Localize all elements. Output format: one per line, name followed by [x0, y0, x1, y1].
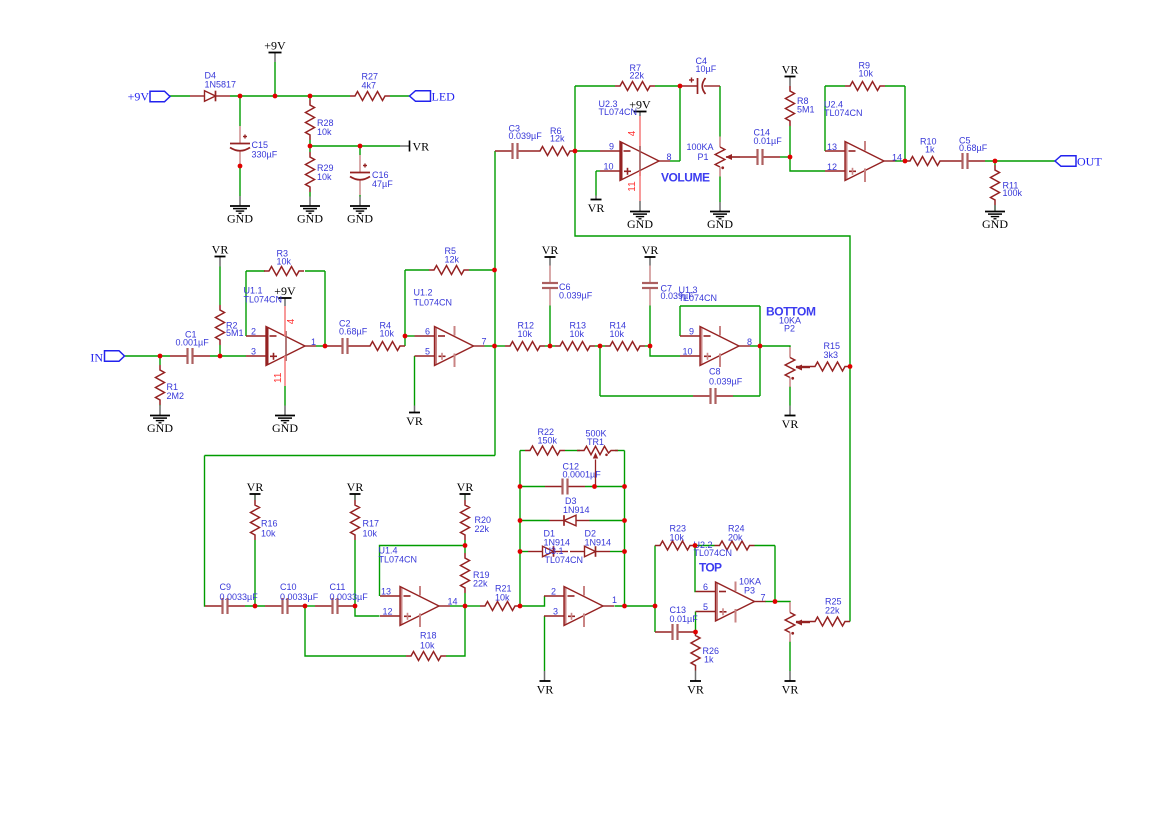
resistor R19 — [461, 553, 470, 593]
svg-text:TOP: TOP — [699, 561, 722, 575]
wire C8 left — [600, 395, 693, 397]
capacitor C16 — [359, 155, 361, 173]
svg-text:5: 5 — [703, 602, 708, 612]
wire R20 top — [464, 494, 466, 500]
wire node O up to R23 — [654, 546, 656, 607]
svg-text:8: 8 — [747, 337, 752, 347]
svg-text:IN: IN — [90, 351, 103, 365]
svg-text:0.68µF: 0.68µF — [339, 327, 368, 337]
svg-text:+9V: +9V — [128, 90, 150, 104]
wire R7 feedback left — [574, 86, 576, 151]
svg-text:2: 2 — [551, 587, 556, 597]
wire U2.4 out to R10 — [895, 160, 905, 162]
node junction 25 at 355,606 — [353, 604, 358, 609]
svg-text:GND: GND — [272, 421, 298, 435]
power flag VR below U1.2 pin5 — [409, 412, 420, 414]
wire R4 to bend — [404, 336, 406, 346]
svg-text:6: 6 — [703, 582, 708, 592]
svg-text:TL074CN: TL074CN — [694, 548, 733, 558]
svg-text:VR: VR — [537, 683, 554, 697]
node junction 12 at 160,356 — [158, 354, 163, 359]
node junction 32 at 695.5,632 — [693, 630, 698, 635]
svg-text:7: 7 — [761, 593, 766, 603]
pin 11 U1.1 — [284, 356, 286, 386]
svg-text:1N5817: 1N5817 — [205, 80, 237, 90]
node junction 29 at 624.5,606 — [622, 604, 627, 609]
power flag +9V U1.1 — [279, 297, 292, 299]
wire R9 right vertical — [904, 86, 906, 161]
wire node E to C2 — [324, 345, 326, 347]
wire R3 top left — [246, 270, 265, 272]
node junction 24 at 305,606 — [303, 604, 308, 609]
svg-text:VR: VR — [588, 201, 605, 215]
svg-text:GND: GND — [297, 212, 323, 226]
wire C14 to node B — [780, 156, 790, 158]
svg-text:10k: 10k — [317, 127, 332, 137]
node junction 3 at 310,96 — [308, 94, 313, 99]
svg-text:10k: 10k — [420, 641, 435, 651]
capacitor C13 — [655, 631, 672, 633]
svg-text:11: 11 — [273, 372, 284, 383]
svg-text:4k7: 4k7 — [362, 81, 377, 91]
wire R27 to LED flag — [390, 95, 410, 97]
wire D4 to node A — [230, 95, 350, 97]
resistor R15 — [810, 362, 850, 371]
op-amp U1.1 — [266, 327, 268, 365]
ground GND under C15 — [230, 205, 250, 207]
resistor R7 — [615, 82, 655, 91]
svg-text:22k: 22k — [473, 579, 488, 589]
svg-text:GND: GND — [707, 217, 733, 231]
svg-text:0.0033µF: 0.0033µF — [330, 592, 369, 602]
wire node A to R28 — [309, 96, 311, 100]
wire node G down — [599, 346, 601, 396]
wire U3.1 out rail — [615, 605, 656, 607]
svg-text:TL074CN: TL074CN — [244, 295, 283, 305]
svg-text:8: 8 — [667, 152, 672, 162]
wire node K to U1.4 pin12 — [355, 606, 380, 616]
wire U2.3 pin10 to VR — [596, 170, 600, 172]
svg-text:100KA: 100KA — [687, 142, 714, 152]
wire VR rail to R29 — [309, 146, 311, 152]
ground GND under U1.1 — [275, 415, 295, 417]
node junction 33 at 775,601.5 — [773, 599, 778, 604]
resistor R14 — [605, 342, 645, 351]
power flag VR above R16 — [250, 493, 261, 495]
VR pin stub C6 — [549, 257, 551, 266]
wire U1.2 out to vertical — [485, 345, 495, 347]
wire R12 left — [495, 345, 506, 347]
capacitor C9 — [205, 605, 222, 607]
svg-text:10k: 10k — [363, 529, 378, 539]
svg-text:10k: 10k — [670, 533, 685, 543]
node junction 8 at 680,86 — [678, 84, 683, 89]
wire R5 right — [469, 269, 495, 271]
wire R15 to right rail — [849, 366, 851, 368]
ground GND under R1 — [150, 415, 170, 417]
svg-text:OUT: OUT — [1077, 155, 1102, 169]
pin 4 U1.1 — [284, 306, 286, 336]
wire R5 left — [405, 269, 429, 271]
svg-text:13: 13 — [827, 142, 837, 152]
wiper wire P3 — [796, 621, 810, 623]
VR pin stub right tick — [400, 145, 410, 147]
svg-text:TL074CN: TL074CN — [379, 555, 418, 565]
svg-text:VR: VR — [782, 683, 799, 697]
VR pin stub R16 — [254, 494, 256, 500]
wire R22 to TR1 — [565, 450, 580, 452]
wire long top link — [575, 151, 850, 367]
svg-text:47µF: 47µF — [372, 179, 393, 189]
svg-text:3: 3 — [251, 347, 256, 357]
svg-text:330µF: 330µF — [252, 150, 278, 160]
op-amp U1.3 — [700, 327, 702, 365]
wire U1.1 pin2 up — [245, 271, 247, 336]
ground GND under R11 — [985, 211, 1005, 213]
node junction 34 at 520,486.5 — [518, 484, 523, 489]
resistor R26 — [691, 631, 700, 671]
wire R2 bottom — [219, 345, 221, 356]
svg-text:C15: C15 — [252, 140, 269, 150]
wire node A to C15 — [239, 96, 241, 126]
wire R23 to R24 — [695, 545, 715, 547]
svg-text:3k3: 3k3 — [824, 350, 839, 360]
capacitor C14 — [740, 156, 757, 158]
ground GND under R29 — [300, 205, 320, 207]
svg-text:U1.2: U1.2 — [414, 288, 433, 298]
power flag VR right of R28 — [409, 141, 411, 152]
wire node O down to C13 — [654, 606, 656, 632]
svg-text:9: 9 — [609, 142, 614, 152]
svg-text:1N914: 1N914 — [585, 538, 612, 548]
svg-text:LED: LED — [432, 90, 456, 104]
capacitor C3 — [495, 150, 512, 152]
svg-text:VR: VR — [413, 140, 430, 154]
svg-text:10k: 10k — [570, 329, 585, 339]
diode D3 — [550, 520, 565, 522]
resistor R16 — [251, 500, 260, 540]
capacitor C12 — [545, 486, 562, 488]
wire ladder top left — [520, 450, 525, 452]
wire C1 to U1.1 pin3 — [210, 355, 246, 357]
svg-text:R16: R16 — [261, 519, 278, 529]
node junction 6 at 360,146 — [358, 144, 363, 149]
svg-text:GND: GND — [227, 212, 253, 226]
wire U1.4 pin13 link — [380, 546, 466, 597]
svg-text:C8: C8 — [709, 367, 721, 377]
svg-text:VR: VR — [782, 62, 799, 76]
svg-text:10k: 10k — [610, 329, 625, 339]
ground pin stub U2.3 pin11 — [639, 201, 641, 212]
wire C13 node to U2.2 pin5 — [695, 612, 697, 633]
diode D4 — [190, 95, 205, 97]
svg-text:GND: GND — [627, 217, 653, 231]
wire node P to P3 — [775, 601, 790, 604]
svg-text:0.0001µF: 0.0001µF — [563, 470, 602, 480]
wire R16 drop — [254, 540, 256, 606]
svg-text:VR: VR — [347, 480, 364, 494]
port IN input flag — [105, 351, 125, 362]
wire C3 left vertical — [494, 151, 496, 456]
VR pin stub U1.2 pin5 — [414, 406, 416, 413]
wire R7 top left — [575, 85, 615, 87]
node junction 17 at 494.5,346 — [492, 344, 497, 349]
svg-text:10k: 10k — [495, 593, 510, 603]
wire node M to R21 — [465, 605, 480, 607]
power flag VR below U2.3 pin10 — [591, 199, 602, 201]
VR pin stub R2 — [219, 257, 221, 267]
wire U2.3 out up — [679, 86, 681, 161]
svg-text:10k: 10k — [261, 529, 276, 539]
wire R21 to node N — [520, 596, 545, 606]
resistor R20 — [461, 500, 470, 540]
wire U1.1 out to node — [316, 345, 325, 347]
power flag VR above R8 — [785, 76, 796, 78]
resistor R13 — [555, 342, 595, 351]
svg-text:11: 11 — [627, 181, 638, 192]
wire U1.2 pin5 stub wire — [414, 356, 416, 406]
svg-text:150k: 150k — [538, 436, 558, 446]
wire C5 to OUT flag — [985, 160, 1055, 162]
wire VR to R2 — [219, 267, 221, 306]
svg-text:12: 12 — [383, 607, 393, 617]
svg-text:5M1: 5M1 — [797, 105, 815, 115]
resistor R24 — [715, 541, 755, 550]
svg-text:TL074CN: TL074CN — [824, 108, 863, 118]
wire node F to U1.2 pin6 — [405, 335, 415, 337]
svg-text:TR1: TR1 — [587, 437, 604, 447]
capacitor C11 — [315, 605, 332, 607]
VR pin stub R17 — [354, 494, 356, 500]
wire node F up to R5 — [404, 270, 406, 336]
svg-text:+9V: +9V — [264, 38, 286, 52]
ground pin stub R1 — [159, 406, 161, 416]
op-amp U1.2 — [435, 327, 437, 365]
resistor R28 — [306, 100, 315, 140]
node junction 20 at 650,346 — [648, 344, 653, 349]
wire C8 loop top — [680, 305, 760, 307]
wire P2 bottom — [789, 386, 791, 406]
svg-text:P2: P2 — [784, 324, 795, 334]
wire C8 loop right vertical — [759, 306, 761, 396]
svg-text:22k: 22k — [630, 71, 645, 81]
pin 4 U2.3 — [639, 116, 641, 146]
svg-text:3: 3 — [553, 607, 558, 617]
trimmer TR1 — [577, 446, 618, 454]
wire P1 bottom to GND — [719, 177, 721, 203]
+9V pin stub U2.3 — [639, 112, 641, 117]
op-amp U2.4 — [845, 142, 847, 180]
wire U1.3 pin10 jog — [650, 346, 680, 356]
wire R19 to node L — [464, 546, 466, 554]
wire R9 top left — [825, 85, 845, 87]
svg-text:P1: P1 — [698, 152, 709, 162]
wire U2.3 out to node — [670, 160, 680, 162]
resistor R22 — [525, 446, 565, 455]
wire C9 to node I — [245, 605, 265, 607]
svg-text:2M2: 2M2 — [167, 391, 185, 401]
ground GND under U2.3 — [630, 211, 650, 213]
port LED output flag — [410, 91, 431, 102]
wire bottom left drop — [204, 456, 207, 607]
node junction 37 at 594.5,486.5 — [592, 484, 597, 489]
wire C15 to GND — [239, 166, 241, 196]
node junction 22 at 850,366.5 — [848, 364, 853, 369]
node junction 7 at 575,151 — [573, 149, 578, 154]
node junction 5 at 310,146 — [308, 144, 313, 149]
resistor R23 — [655, 541, 695, 550]
ground pin stub C15 — [239, 196, 241, 206]
node junction 9 at 790,157 — [788, 155, 793, 160]
svg-text:TL074CN: TL074CN — [414, 298, 453, 308]
svg-text:C10: C10 — [280, 582, 297, 592]
wire right rail lower — [849, 367, 851, 622]
VR pin stub U3.1 pin3 — [544, 671, 546, 681]
svg-text:6: 6 — [425, 327, 430, 337]
capacitor C7 — [649, 266, 651, 283]
node junction 23 at 255,606 — [253, 604, 258, 609]
op-amp U1.4 — [400, 587, 402, 625]
svg-text:100k: 100k — [1003, 188, 1023, 198]
svg-text:GND: GND — [982, 217, 1008, 231]
op-amp U2.3 — [620, 142, 622, 180]
resistor R3 — [264, 267, 304, 276]
svg-text:1k: 1k — [925, 145, 935, 155]
node junction 35 at 520,520.5 — [518, 518, 523, 523]
svg-text:10k: 10k — [859, 69, 874, 79]
VR pin stub P3 — [789, 671, 791, 681]
wire R20 to node L — [464, 540, 466, 546]
wire C12 right — [585, 486, 625, 488]
svg-text:0.01µF: 0.01µF — [754, 136, 783, 146]
wire R3 feedback right — [324, 271, 326, 346]
VR pin stub P2 — [789, 406, 791, 416]
node junction 28 at 520,606 — [518, 604, 523, 609]
wire P3 bottom — [789, 641, 791, 671]
node junction 31 at 695,545.5 — [693, 543, 698, 548]
power flag VR above R17 — [350, 493, 361, 495]
wire R6 to U2.3 pin9 — [575, 150, 600, 152]
wire IN flag to C1 — [125, 355, 170, 357]
wire C4 to P1 top — [719, 86, 721, 137]
wire U1.3 out to node — [750, 345, 760, 347]
node junction 27 at 465,606 — [463, 604, 468, 609]
svg-text:P3: P3 — [744, 586, 755, 596]
VR pin stub R26 — [695, 671, 697, 682]
+9V pin stub U1.1 — [284, 298, 286, 306]
wire C12 left — [520, 486, 545, 488]
node junction 18 at 550,346 — [548, 344, 553, 349]
ground pin stub U1.1 pin11 — [284, 406, 286, 416]
resistor R8 — [786, 86, 795, 126]
wire +9V input to D4 — [170, 95, 191, 97]
svg-text:9: 9 — [689, 327, 694, 337]
power flag VR above C7 — [645, 256, 656, 258]
wire R29 to GND — [309, 192, 311, 197]
ground pin stub C16 — [359, 197, 361, 207]
power flag VR below U3.1 pin3 — [540, 680, 551, 682]
power flag +9V top rail — [269, 52, 282, 54]
wiper wire P1 — [726, 156, 740, 158]
resistor R29 — [306, 152, 315, 192]
wire U2.3 pin10 drop — [595, 171, 597, 196]
resistor R1 — [156, 365, 165, 405]
svg-text:4: 4 — [286, 318, 297, 324]
svg-text:VR: VR — [687, 683, 704, 697]
svg-text:10k: 10k — [317, 172, 332, 182]
VR pin stub C7 — [649, 257, 651, 266]
svg-text:R18: R18 — [420, 631, 437, 641]
svg-text:VR: VR — [247, 480, 264, 494]
resistor R12 — [505, 342, 545, 351]
diode D1 — [528, 551, 543, 553]
+9V pin stub top rail — [274, 53, 276, 62]
capacitor C8 — [693, 395, 710, 397]
wire R9 to right vertical — [885, 85, 905, 87]
wire C7 drop — [649, 306, 651, 347]
capacitor C10 — [265, 605, 282, 607]
op-amp U3.1 — [564, 587, 566, 625]
wire R28 to VR rail — [309, 140, 311, 146]
svg-text:1: 1 — [612, 595, 617, 605]
wire R23 node to U2.2 pin6 — [694, 546, 697, 592]
ground pin stub R11 — [994, 205, 996, 212]
power flag VR below P2 — [785, 415, 796, 417]
VR pin stub R20 — [464, 494, 466, 500]
wire R12 to C6 node — [545, 345, 555, 347]
svg-text:14: 14 — [892, 153, 902, 163]
wire U1.1 pin11 segment — [284, 386, 286, 406]
svg-text:TL074CN: TL074CN — [679, 293, 718, 303]
wire U3.1 pin3 drop — [544, 616, 546, 671]
svg-text:13: 13 — [381, 587, 391, 597]
node junction 1 at 240,96 — [238, 94, 243, 99]
wire U1.4 out to node M — [450, 605, 465, 607]
svg-text:12: 12 — [827, 162, 837, 172]
svg-text:C11: C11 — [330, 582, 346, 592]
wire R19 to node M — [464, 593, 466, 606]
VR pin stub R8 — [789, 77, 791, 87]
wiper wire P2 — [796, 366, 810, 368]
svg-text:TL074CN: TL074CN — [545, 555, 584, 565]
wire C16 to GND — [359, 195, 361, 197]
node junction 14 at 325,346 — [323, 344, 328, 349]
node junction 10 at 905,161 — [903, 159, 908, 164]
svg-text:5M1: 5M1 — [226, 328, 244, 338]
wire R18 loop left — [305, 606, 406, 656]
svg-text:0.0033µF: 0.0033µF — [220, 592, 259, 602]
power flag VR below R26 — [690, 680, 701, 682]
wire C8 right — [733, 395, 760, 397]
svg-text:10: 10 — [604, 162, 614, 172]
node junction 15 at 405,336 — [403, 334, 408, 339]
wire ladder right rail — [624, 451, 626, 607]
svg-text:1: 1 — [311, 337, 316, 347]
resistor R11 — [991, 165, 1000, 205]
capacitor C6 — [549, 266, 551, 283]
resistor R21 — [480, 602, 520, 611]
svg-text:1N914: 1N914 — [563, 505, 590, 515]
svg-text:7: 7 — [482, 337, 487, 347]
diode D2 — [570, 551, 585, 553]
svg-text:TL074CN: TL074CN — [599, 107, 638, 117]
svg-text:VR: VR — [542, 243, 559, 257]
power flag VR above C6 — [545, 256, 556, 258]
wire R11 to GND — [994, 205, 996, 212]
wire D3 right — [590, 520, 625, 522]
resistor R6 — [535, 147, 575, 156]
svg-text:0.01µF: 0.01µF — [670, 614, 699, 624]
